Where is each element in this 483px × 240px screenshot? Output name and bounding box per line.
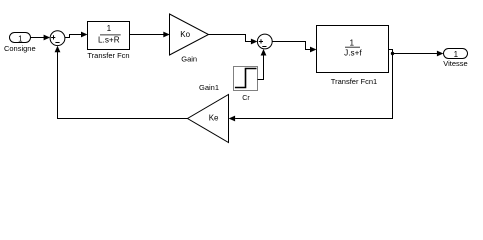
feedback wire from junction down and left to Ke <box>229 54 393 122</box>
wire Transfer Fcn1 to outport Vitesse <box>389 50 444 57</box>
svg-text:Transfer Fcn1: Transfer Fcn1 <box>331 77 377 86</box>
transfer function block Transfer Fcn 1/(L.s+R) <box>87 22 129 61</box>
wire Ke to Sum bottom <box>55 46 188 119</box>
svg-text:Ko: Ko <box>180 30 190 39</box>
gain block Ko (Gain) <box>170 14 209 64</box>
input port 1 (Consigne) <box>4 33 36 53</box>
svg-text:1: 1 <box>107 24 112 33</box>
svg-text:1: 1 <box>350 38 355 47</box>
output port 1 (Vitesse) <box>443 49 467 68</box>
svg-text:Transfer Fcn: Transfer Fcn <box>87 51 129 60</box>
sum block Sum (+ -) <box>50 31 65 46</box>
junction node on output wire <box>391 52 394 55</box>
svg-text:J.s+f: J.s+f <box>344 49 362 58</box>
svg-text:1: 1 <box>18 34 23 43</box>
svg-text:L.s+R: L.s+R <box>98 36 120 45</box>
gain block Ke (Gain1) <box>188 83 229 142</box>
sum block Sum1 (+ -) <box>257 34 272 49</box>
wire Cr to Sum1 bottom <box>258 49 267 80</box>
wire Gain to Sum1 <box>209 35 258 45</box>
step block Cr <box>234 67 258 103</box>
wire Consigne to Sum <box>31 35 51 41</box>
svg-text:Gain: Gain <box>181 55 197 64</box>
wire Transfer Fcn to Gain <box>130 32 170 38</box>
svg-text:Ke: Ke <box>209 113 219 122</box>
transfer function block Transfer Fcn1 1/(J.s+f) <box>317 26 389 86</box>
svg-text:Vitesse: Vitesse <box>443 59 467 68</box>
svg-text:Cr: Cr <box>242 95 250 102</box>
svg-text:1: 1 <box>454 50 459 59</box>
svg-text:Consigne: Consigne <box>4 44 36 53</box>
svg-text:Gain1: Gain1 <box>199 83 219 92</box>
wire Sum to Transfer Fcn <box>65 32 88 38</box>
wire Sum1 to Transfer Fcn1 <box>272 42 316 53</box>
